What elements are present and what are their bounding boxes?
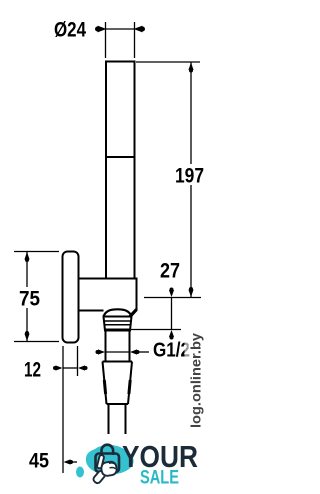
svg-text:27: 27 bbox=[160, 260, 180, 283]
logo bag body bbox=[96, 454, 120, 473]
dim 197 line bbox=[190, 62, 192, 298]
dim 27 extension line upper bbox=[144, 297, 201, 299]
hose bbox=[109, 404, 126, 434]
dim 75 arrows bbox=[24, 252, 29, 341]
svg-text:G1/2: G1/2 bbox=[153, 340, 190, 362]
dim 27 line bbox=[171, 298, 173, 330]
watermark log.onliner.by bbox=[185, 326, 205, 432]
svg-text:Ø24: Ø24 bbox=[54, 19, 86, 42]
svg-text:197: 197 bbox=[175, 165, 204, 188]
outlet dome bbox=[104, 309, 132, 316]
head/handle joint line bbox=[106, 156, 135, 158]
logo bag handle bbox=[102, 445, 114, 455]
wall plate bbox=[63, 252, 79, 343]
outlet nut bbox=[104, 317, 132, 331]
dim 27 extension line lower bbox=[130, 329, 181, 331]
dim 27 arrows bbox=[169, 288, 174, 340]
dim G1/2 line bbox=[106, 351, 130, 353]
svg-text:12: 12 bbox=[24, 359, 41, 382]
svg-text:45: 45 bbox=[29, 450, 49, 473]
logo hand knuckles bbox=[109, 463, 116, 469]
bracket corner wedge bbox=[130, 310, 137, 318]
logo hand finger bbox=[97, 455, 105, 469]
logo teal splash bbox=[76, 467, 84, 478]
dim 75 extension lines bbox=[14, 252, 59, 342]
dim 12 extension lines bbox=[63, 346, 78, 473]
bracket body bbox=[79, 279, 137, 311]
dim 197 extension line bbox=[136, 61, 200, 63]
handle bbox=[106, 157, 135, 279]
dim 12 arrows bbox=[53, 365, 88, 370]
logo teal blob bbox=[86, 445, 134, 475]
dim 45 arrow bbox=[64, 459, 78, 464]
shower head body bbox=[106, 62, 135, 158]
dim Ø24 extension lines bbox=[106, 22, 135, 58]
logo hand fist bbox=[100, 461, 117, 477]
dim Ø24 arrows bbox=[96, 26, 145, 31]
dim G1/2 arrows bbox=[96, 349, 140, 354]
svg-text:SALE: SALE bbox=[140, 467, 179, 489]
dim G1/2 leader bbox=[137, 351, 149, 353]
connector neck bbox=[106, 331, 130, 362]
dim 197 arrows bbox=[188, 63, 193, 298]
svg-text:log.onliner.by: log.onliner.by bbox=[187, 333, 203, 428]
hose fitting cone bbox=[103, 362, 133, 405]
svg-text:75: 75 bbox=[19, 288, 40, 311]
logo hand wrist bbox=[92, 470, 106, 485]
